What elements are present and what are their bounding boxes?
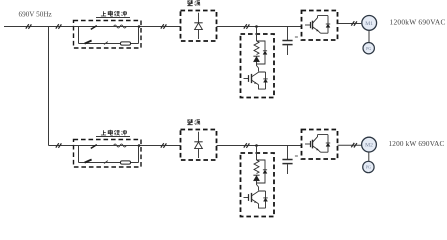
breaker squiggle 2	[114, 144, 127, 147]
wire dc bus 1	[217, 26, 302, 28]
wire break slash 1d	[244, 24, 250, 29]
rectifier box 2 (dashed)	[181, 130, 217, 161]
resistor R-brake 1	[254, 41, 259, 55]
wire inverter to motor M2	[338, 144, 362, 146]
wire bottom branch 2	[79, 162, 139, 164]
svg-text:1200 kW 690VAC: 1200 kW 690VAC	[389, 140, 445, 148]
diode D1c series (filled)	[253, 56, 259, 71]
wire break slash 2d	[244, 143, 250, 148]
precharge switch blade 2	[85, 160, 92, 163]
motor M1	[362, 16, 377, 31]
wire to rectifier 2	[141, 145, 181, 147]
wire break slash g	[351, 143, 357, 148]
diode D2b parallel with brake resistor	[257, 160, 268, 183]
switch tick 1	[104, 42, 108, 45]
node chopper tap 1	[255, 25, 258, 28]
wire break slash b	[56, 24, 62, 29]
node junction 2	[138, 144, 141, 147]
brake chopper box 2 (dashed)	[241, 153, 275, 217]
wire tee drop to second drive	[48, 27, 50, 146]
wire break slash 2c	[161, 143, 167, 148]
wire left vertical 2	[78, 146, 80, 163]
label underline 1	[96, 17, 130, 19]
diode D1d antiparallel (chopper)	[259, 72, 268, 89]
label shang-dian-huan-chong 1	[101, 11, 127, 17]
rectifier diode D2a	[194, 132, 202, 158]
label underline 2	[96, 136, 130, 138]
diode D1e antiparallel (inverter)	[326, 16, 330, 34]
wire bus in (second drive)	[49, 145, 74, 147]
encoder PG1	[363, 43, 374, 54]
encoder PG2	[363, 161, 374, 172]
IGBT Q2b (inverter)	[305, 135, 328, 153]
svg-text:1200kW 690VAC: 1200kW 690VAC	[390, 18, 446, 27]
contactor blade K2	[91, 145, 97, 149]
diode D2d antiparallel (chopper)	[259, 191, 268, 208]
wire motor M2 to encoder	[368, 152, 370, 161]
wire right vertical 2	[138, 146, 140, 163]
wire top branch 1	[74, 26, 142, 28]
diode D1b parallel with brake resistor	[257, 41, 268, 64]
rectifier box 1 (dashed)	[181, 11, 217, 42]
capacitor C1	[282, 27, 298, 56]
breaker squiggle 1	[114, 25, 127, 28]
wire dc bus 2	[217, 145, 302, 147]
diode D2c series (filled)	[253, 175, 259, 190]
capacitor C2	[282, 146, 298, 175]
wire break slash 1c	[161, 24, 167, 29]
wire chopper entry 2	[256, 146, 258, 161]
wire break slash e	[351, 21, 357, 26]
IGBT Q1b (inverter)	[305, 16, 328, 34]
label shang-dian-huan-chong 2	[101, 130, 127, 136]
node junction 1	[138, 25, 141, 28]
wire main bus in	[4, 26, 74, 28]
wire break slash f	[56, 143, 62, 148]
wire to rectifier 1	[141, 26, 181, 28]
brake chopper box 1 (dashed)	[241, 34, 275, 98]
precharge box 2 (dashed)	[74, 140, 142, 168]
wire left vertical 1	[78, 27, 80, 44]
label zheng-liu 2	[187, 120, 200, 125]
wire motor M1 to encoder	[368, 31, 370, 43]
inverter box 2 (dashed)	[302, 130, 338, 160]
svg-text:PG: PG	[366, 165, 371, 170]
IGBT Q2a (chopper)	[244, 191, 266, 208]
wire top branch 2	[74, 145, 142, 147]
wire chopper entry 1	[256, 27, 258, 42]
inverter box 1 (dashed)	[302, 11, 338, 41]
resistor R-brake 2	[254, 160, 259, 174]
switch tick 2	[104, 161, 108, 164]
precharge switch blade 1	[85, 41, 92, 44]
svg-text:M1: M1	[365, 21, 373, 27]
motor M2	[362, 137, 377, 152]
diode D2e antiparallel (inverter)	[326, 135, 330, 153]
label zheng-liu 1	[187, 1, 200, 6]
svg-text:690V 50Hz: 690V 50Hz	[19, 11, 52, 19]
wire break slash a	[26, 24, 32, 29]
precharge box 1 (dashed)	[74, 21, 142, 49]
wire inverter to motor M1	[338, 23, 362, 25]
contactor blade K1	[91, 26, 97, 30]
wire right vertical 1	[138, 27, 140, 44]
svg-text:M2: M2	[365, 143, 373, 149]
rectifier diode D1a	[194, 13, 202, 39]
resistor R-precharge 2	[121, 161, 131, 164]
resistor R-precharge 1	[121, 42, 131, 45]
node chopper tap 2	[255, 144, 258, 147]
wire bottom branch 1	[79, 43, 139, 45]
IGBT Q1a (chopper)	[244, 72, 266, 89]
svg-text:PG: PG	[366, 46, 371, 51]
